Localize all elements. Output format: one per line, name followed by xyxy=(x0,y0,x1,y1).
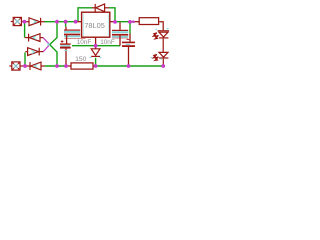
capacitor C2 left 10nF plates xyxy=(64,27,85,39)
wire bottom rail left segment xyxy=(45,65,67,67)
svg-text:10nF: 10nF xyxy=(77,39,92,46)
wire D6 cathode down to bottom rail xyxy=(95,58,97,66)
pin VI stub xyxy=(76,21,82,23)
pin GND stub xyxy=(95,37,97,48)
LED LED2 xyxy=(153,52,168,65)
node A junction dots xyxy=(23,20,166,68)
connector X1-2 xyxy=(9,62,23,70)
diode D6 under regulator xyxy=(91,49,100,57)
op-amp U1 78L05 regulator box xyxy=(82,12,110,37)
svg-text:10nF: 10nF xyxy=(100,39,115,46)
diode D2 xyxy=(25,34,43,42)
wire bridge feed vertical from node AC2 up to D3 xyxy=(24,52,26,65)
wire C2 to C1 link xyxy=(66,35,68,43)
diode D4 xyxy=(26,62,45,70)
wire bottom rail right segment xyxy=(96,65,163,67)
wire bridge diagonal D2 anode to minus rail (magenta half) xyxy=(43,38,50,45)
node bridge crossing artifact xyxy=(47,43,49,45)
diode D1 xyxy=(26,18,45,26)
svg-text:78L05: 78L05 xyxy=(84,21,105,30)
resistor R1 xyxy=(134,18,163,31)
resistor R2 150 xyxy=(67,63,96,69)
wire C4 top feed vertical from rail dot xyxy=(129,22,131,34)
capacitor C4 electrolytic right xyxy=(122,34,135,66)
wire bypass right segment and riser down xyxy=(109,8,115,21)
diode D3 xyxy=(25,48,43,56)
wire bridge diagonal D3 cathode to plus rail (magenta half) xyxy=(43,45,50,52)
wire bridge diagonal green half up to plus rail xyxy=(50,22,57,44)
wire box edge artifacts xyxy=(84,14,109,37)
wire bridge diagonal green half down to minus rail xyxy=(50,45,57,66)
pin VO stub xyxy=(110,21,114,23)
svg-text:150: 150 xyxy=(75,56,87,63)
connector X1-1 xyxy=(11,17,24,25)
LED LED1 xyxy=(153,31,169,52)
wire top rail right of regulator to R1 xyxy=(114,21,134,23)
capacitor C3 right 10nF plates xyxy=(112,22,128,45)
wire bypass riser left xyxy=(78,8,93,22)
wire GND mid rail xyxy=(72,45,120,47)
capacitor C1 electrolytic left xyxy=(60,40,71,65)
wire top rail left (AC1 to regulator input) xyxy=(44,21,77,23)
wire bridge feed vertical from node AC1 down to D2 xyxy=(24,22,26,37)
wire C2 top lead from top rail xyxy=(65,22,67,27)
diode D5 bypass xyxy=(92,4,109,12)
